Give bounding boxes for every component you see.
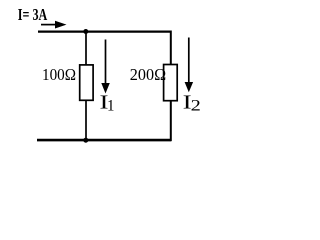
svg-text:I= 3A: I= 3A xyxy=(18,5,48,24)
node B (bottom junction) xyxy=(83,138,88,143)
node A (top junction) xyxy=(83,29,88,34)
wire right lower xyxy=(170,101,172,142)
svg-text:200Ω: 200Ω xyxy=(130,65,166,84)
svg-text:1: 1 xyxy=(107,98,115,115)
wire bottom xyxy=(37,139,171,142)
svg-text:100Ω: 100Ω xyxy=(42,65,76,84)
svg-text:2: 2 xyxy=(191,98,201,115)
wire branch1 lower xyxy=(85,100,87,141)
resistor R1 100ohm xyxy=(80,65,93,100)
resistor R2 200ohm xyxy=(164,65,178,101)
branch current arrow I1 xyxy=(101,40,110,94)
current label I1 xyxy=(100,91,115,114)
source current arrow xyxy=(41,21,67,29)
wire top xyxy=(38,31,171,33)
wire branch1 upper xyxy=(85,32,87,66)
wire right upper xyxy=(170,31,172,66)
branch current arrow I2 xyxy=(185,38,194,93)
current label I2 xyxy=(183,92,201,115)
